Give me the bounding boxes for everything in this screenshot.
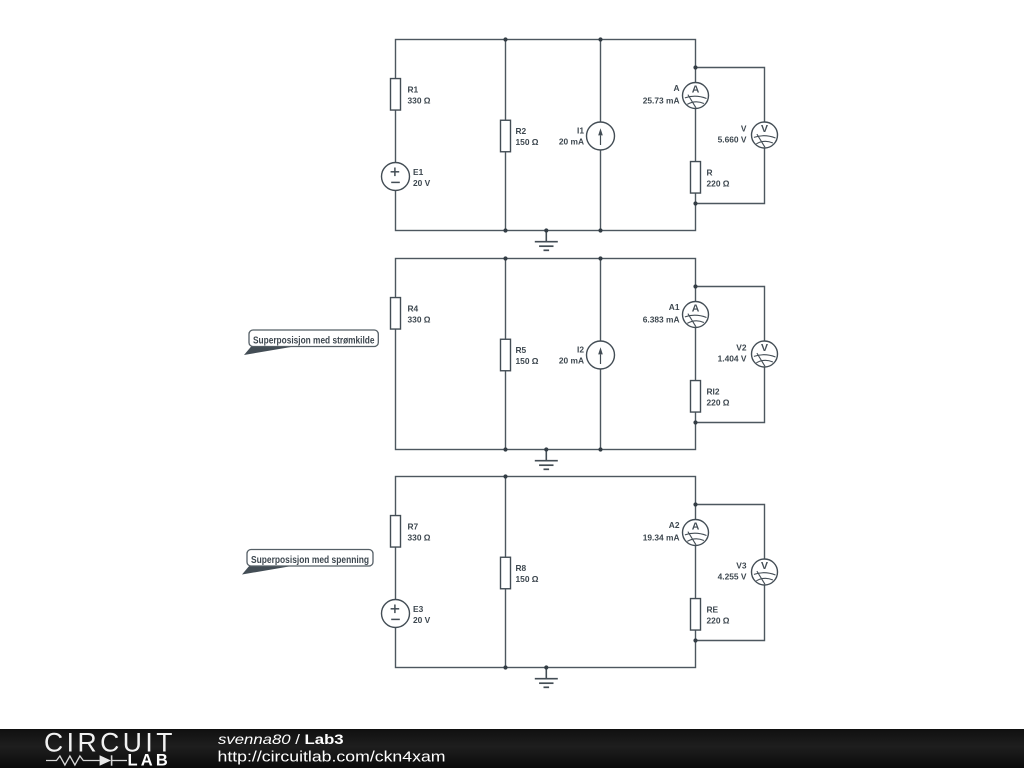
svg-text:http://circuitlab.com/ckn4xam: http://circuitlab.com/ckn4xam bbox=[218, 749, 446, 765]
svg-text:150 Ω: 150 Ω bbox=[516, 356, 539, 366]
svg-text:150 Ω: 150 Ω bbox=[516, 137, 539, 147]
svg-text:V: V bbox=[741, 124, 747, 134]
svg-text:A: A bbox=[692, 303, 700, 315]
svg-text:V3: V3 bbox=[736, 561, 747, 571]
svg-text:R4: R4 bbox=[408, 303, 419, 313]
svg-text:A1: A1 bbox=[669, 302, 680, 312]
svg-text:V: V bbox=[761, 123, 768, 135]
svg-text:RE: RE bbox=[707, 604, 719, 614]
svg-text:E3: E3 bbox=[413, 604, 424, 614]
svg-text:150 Ω: 150 Ω bbox=[516, 574, 539, 584]
svg-text:4.255 V: 4.255 V bbox=[718, 572, 747, 582]
svg-text:LAB: LAB bbox=[128, 752, 172, 768]
svg-text:20 V: 20 V bbox=[413, 178, 431, 188]
svg-text:330 Ω: 330 Ω bbox=[408, 314, 431, 324]
svg-text:V: V bbox=[761, 342, 768, 354]
svg-text:330 Ω: 330 Ω bbox=[408, 532, 431, 542]
svg-text:A: A bbox=[673, 83, 679, 93]
svg-text:I2: I2 bbox=[577, 345, 584, 355]
svg-text:19.34 mA: 19.34 mA bbox=[643, 533, 680, 543]
svg-text:25.73 mA: 25.73 mA bbox=[643, 96, 680, 106]
svg-text:R1: R1 bbox=[408, 84, 419, 94]
svg-text:R5: R5 bbox=[516, 345, 527, 355]
svg-text:A2: A2 bbox=[669, 520, 680, 530]
svg-text:R8: R8 bbox=[516, 563, 527, 573]
svg-text:V2: V2 bbox=[736, 343, 747, 353]
svg-text:RI2: RI2 bbox=[707, 386, 720, 396]
svg-text:1.404 V: 1.404 V bbox=[718, 354, 747, 364]
svg-text:Superposisjon med strømkilde: Superposisjon med strømkilde bbox=[253, 335, 375, 346]
svg-text:220 Ω: 220 Ω bbox=[707, 178, 730, 188]
svg-text:R7: R7 bbox=[408, 521, 419, 531]
svg-text:20 mA: 20 mA bbox=[559, 137, 584, 147]
svg-text:6.383 mA: 6.383 mA bbox=[643, 315, 680, 325]
svg-text:svenna80 / Lab3: svenna80 / Lab3 bbox=[218, 733, 344, 748]
svg-text:20 mA: 20 mA bbox=[559, 356, 584, 366]
svg-text:20 V: 20 V bbox=[413, 615, 431, 625]
svg-text:I1: I1 bbox=[577, 126, 584, 136]
svg-text:R: R bbox=[707, 167, 713, 177]
svg-text:220 Ω: 220 Ω bbox=[707, 615, 730, 625]
svg-text:V: V bbox=[761, 560, 768, 572]
svg-text:A: A bbox=[692, 521, 700, 533]
svg-text:E1: E1 bbox=[413, 167, 424, 177]
svg-text:330 Ω: 330 Ω bbox=[408, 95, 431, 105]
svg-text:5.660 V: 5.660 V bbox=[718, 135, 747, 145]
svg-text:A: A bbox=[692, 84, 700, 96]
svg-text:220 Ω: 220 Ω bbox=[707, 397, 730, 407]
svg-text:R2: R2 bbox=[516, 126, 527, 136]
svg-text:Superposisjon med spenning: Superposisjon med spenning bbox=[251, 555, 369, 566]
